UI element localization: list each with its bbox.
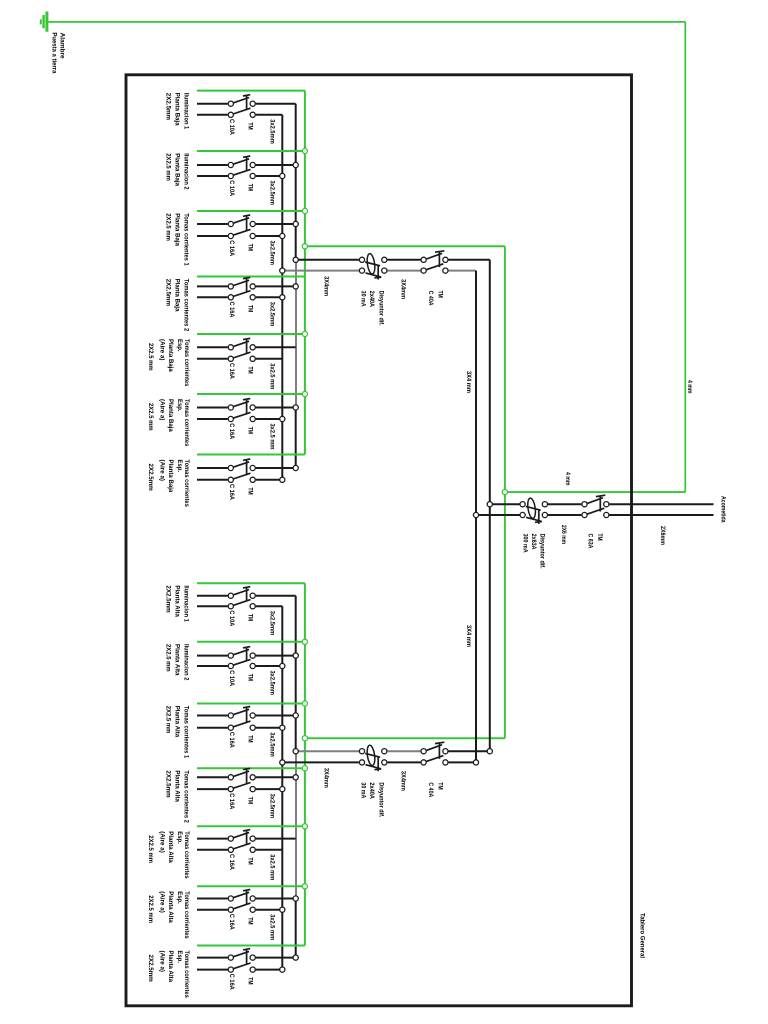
wire dif-TM L bot (387, 750, 420, 752)
junction N bus row4 top (280, 295, 285, 300)
wire TM out N bot (449, 761, 477, 763)
junction L bus row7 bot (293, 955, 298, 960)
green node row2 bot (302, 639, 307, 644)
wire load N PA2 (197, 665, 228, 667)
svg-text:TM: TM (247, 427, 254, 435)
junction N bus row7 bot (280, 967, 285, 972)
wire load N PB3 (197, 235, 228, 237)
differential breaker 2x40A 30mA bot (359, 745, 387, 772)
svg-text:Planta Alta: Planta Alta (174, 770, 181, 802)
wire breaker-to-bus L PA5 (256, 838, 296, 840)
wire TM out N top (449, 270, 477, 272)
wire load L PB3 (197, 223, 228, 225)
breaker TM C 16A PA4 (228, 768, 255, 791)
svg-text:Planta Alta: Planta Alta (174, 706, 181, 738)
wire ground branch PA3 (197, 703, 305, 705)
svg-text:Esp.: Esp. (176, 951, 183, 964)
junction N bus row2 top (280, 173, 285, 178)
svg-text:Tomas corrientes 2: Tomas corrientes 2 (183, 770, 190, 823)
svg-text:Esp.: Esp. (176, 460, 183, 473)
svg-text:Planta Baja: Planta Baja (174, 93, 181, 126)
junction N bus row6 top (280, 416, 285, 421)
label circuit name PB4 (164, 279, 189, 332)
wire breaker-to-bus N PA1 (256, 605, 282, 607)
green ground bus top group (304, 91, 306, 455)
breaker TM C 10A PA2 (228, 647, 255, 669)
wire dif-TM main L (548, 503, 581, 505)
svg-text:(Aire a): (Aire a) (159, 460, 166, 482)
svg-text:3x2.5mm: 3x2.5mm (268, 119, 275, 144)
svg-text:Planta Alta: Planta Alta (167, 891, 174, 923)
green node dif bot (302, 736, 307, 741)
junction N bus row3 bot (280, 725, 285, 730)
service entrance wire L (609, 503, 713, 505)
breaker TM C 40A bot (421, 742, 448, 765)
breaker TM C 16A PA3 (228, 707, 255, 731)
breaker TM C 16A PB4 (228, 277, 255, 300)
svg-text:3X4mm: 3X4mm (399, 771, 406, 791)
svg-text:Puesta a tierra: Puesta a tierra (51, 32, 58, 73)
green wire dif link top (305, 245, 505, 247)
junction L bus row2 top (293, 162, 298, 167)
ground electrode symbol (41, 12, 47, 32)
wire ground branch PB5 (197, 333, 305, 335)
svg-text:Planta Baja: Planta Baja (167, 399, 174, 432)
wire breaker-to-bus L PB6 (256, 407, 296, 409)
svg-text:3x2.5mm: 3x2.5mm (268, 302, 275, 327)
label TM C40A bot (427, 782, 443, 797)
breaker TM C 16A PA7 (228, 949, 255, 973)
svg-text:2x40A: 2x40A (368, 782, 375, 799)
svg-text:2X2.5 mm: 2X2.5 mm (164, 213, 171, 241)
wire load N PB5 (197, 358, 228, 360)
wire load L PB7 (197, 467, 228, 469)
wire load L PA2 (197, 655, 228, 657)
wire breaker-to-bus N PB1 (256, 114, 282, 116)
svg-text:Iluminacion 2: Iluminacion 2 (183, 644, 190, 681)
svg-text:TM: TM (247, 797, 254, 805)
wire load L PB1 (197, 103, 228, 105)
label circuit name PB5 (147, 339, 190, 387)
green node row3 bot (302, 701, 307, 706)
wire breaker-to-bus L PA3 (256, 715, 296, 717)
svg-text:2X2.5 mm: 2X2.5 mm (164, 153, 171, 181)
svg-text:Esp.: Esp. (176, 831, 183, 844)
svg-text:Tomas corrientes: Tomas corrientes (183, 891, 190, 939)
svg-text:Tomas corrientes 2: Tomas corrientes 2 (183, 279, 190, 332)
svg-text:(Aire a): (Aire a) (159, 951, 166, 973)
label TM C40A top (427, 291, 443, 306)
wire load N PB6 (197, 418, 228, 420)
wire breaker-to-bus N PA3 (256, 727, 282, 729)
svg-text:C 16A: C 16A (228, 302, 235, 318)
wire breaker-to-bus L PA7 (256, 957, 296, 959)
junction L bus row3 bot (293, 713, 298, 718)
green node row6 top (302, 391, 307, 396)
enclosure Tablero General box (126, 75, 632, 1006)
wire breaker-to-bus N PB5 (256, 358, 282, 360)
wire dif feed N top (282, 270, 359, 272)
svg-text:(Aire a): (Aire a) (159, 339, 166, 361)
junction corner N bottom group (473, 760, 478, 765)
wire dif-TM N bot (387, 761, 420, 763)
green node row4 bot (302, 766, 307, 771)
main wire N (476, 514, 520, 516)
green node row5 bot (302, 824, 307, 829)
black bus L lower bot group (295, 899, 297, 958)
svg-text:Planta Baja: Planta Baja (174, 213, 181, 246)
junction L bus row4 top (293, 284, 298, 289)
svg-text:2X2.5 mm: 2X2.5 mm (147, 343, 154, 371)
wire breaker-to-bus N PA2 (256, 665, 282, 667)
label circuit name PB7 (147, 460, 190, 508)
wire link L bottom group up (489, 504, 491, 751)
wire breaker-to-bus N PB7 (256, 479, 282, 481)
junction L bus row2 bot (293, 653, 298, 658)
wire breaker-to-bus L PA6 (256, 898, 296, 900)
wire breaker-to-bus N PB6 (256, 418, 282, 420)
wire breaker-to-bus N PB4 (256, 296, 282, 298)
label disyuntor dif bot (360, 782, 385, 817)
wire ground branch PA5 (197, 825, 305, 827)
svg-text:2X2.5 mm: 2X2.5 mm (147, 895, 154, 923)
svg-text:TM: TM (247, 917, 254, 925)
svg-text:2x63A: 2x63A (530, 534, 537, 550)
green node main (502, 490, 507, 495)
green earth wire top (47, 21, 685, 23)
breaker TM C 40A top (421, 251, 448, 273)
wire ground branch PA2 (197, 641, 305, 643)
svg-text:TM: TM (247, 488, 254, 496)
wire breaker-to-bus N PB2 (256, 175, 282, 177)
svg-text:3x2.5 mm: 3x2.5 mm (268, 854, 275, 880)
breaker TM C 16A PB7 (228, 459, 255, 482)
wire load N PB4 (197, 296, 228, 298)
svg-text:C 16A: C 16A (228, 240, 235, 256)
svg-text:Planta Baja: Planta Baja (167, 339, 174, 372)
breaker TM C 16A PA6 (228, 890, 255, 913)
wire link N bottom group up (475, 515, 477, 762)
svg-text:Alambre: Alambre (58, 33, 65, 59)
differential breaker 2x63A 300mA main (520, 498, 548, 524)
svg-text:4 mm: 4 mm (564, 472, 571, 486)
wire link L top group down (489, 260, 491, 504)
svg-text:300 mA: 300 mA (521, 534, 528, 553)
breaker TM C 10A PB1 (228, 95, 255, 118)
wire ground branch PB3 (197, 210, 305, 212)
svg-text:2X2.5 mm: 2X2.5 mm (164, 706, 171, 734)
label circuit name PB2 (164, 153, 189, 190)
svg-text:Iluminacion 1: Iluminacion 1 (183, 585, 190, 622)
wire load L PA7 (197, 957, 228, 959)
svg-text:(Aire a): (Aire a) (159, 891, 166, 913)
svg-text:3x2.5 mm: 3x2.5 mm (268, 424, 275, 450)
wire load N PA1 (197, 605, 228, 607)
label circuit name PA6 (147, 891, 190, 939)
green earth wire right vertical (684, 22, 686, 492)
junction L bus row7 top (293, 465, 298, 470)
wire load N PA4 (197, 788, 228, 790)
svg-text:2X2.5mm: 2X2.5mm (164, 93, 171, 120)
svg-text:C 16A: C 16A (228, 363, 235, 379)
wire breaker-to-bus L PB5 (256, 346, 296, 348)
svg-text:(Aire a): (Aire a) (159, 831, 166, 853)
black bus L lower top group (295, 408, 297, 469)
wire dif feed L bot (296, 750, 359, 752)
svg-text:Esp.: Esp. (176, 891, 183, 904)
svg-text:2X2.5 mm: 2X2.5 mm (147, 403, 154, 431)
junction N bus row6 bot (280, 907, 285, 912)
svg-text:Planta Alta: Planta Alta (174, 585, 181, 617)
svg-text:TM: TM (247, 858, 254, 866)
svg-text:4 mm: 4 mm (686, 380, 693, 394)
wire load N PA7 (197, 969, 228, 971)
svg-text:3x2.5mm: 3x2.5mm (268, 181, 275, 206)
junction dif N top (280, 268, 285, 273)
wire breaker-to-bus L PA2 (256, 655, 296, 657)
svg-text:Tomas corrientes 1: Tomas corrientes 1 (183, 213, 190, 266)
svg-text:TM: TM (247, 367, 254, 375)
wire ground branch PA4 (197, 767, 305, 769)
label circuit name PA1 (164, 585, 189, 622)
breaker TM C 16A PB6 (228, 399, 255, 422)
wire dif-TM L top (387, 259, 420, 261)
main wire L (490, 503, 520, 505)
junction N bus row7 top (280, 477, 285, 482)
svg-text:Planta Alta: Planta Alta (174, 644, 181, 676)
svg-text:2X6mm: 2X6mm (659, 526, 666, 545)
label circuit name PA7 (147, 951, 190, 999)
wire load L PB2 (197, 164, 228, 166)
breaker TM C 10A PA1 (228, 587, 255, 609)
breaker TM C 63A main (582, 495, 609, 517)
grey bus segment top group (295, 260, 297, 408)
junction N bus row4 bot (280, 787, 285, 792)
svg-text:C 63A: C 63A (587, 534, 594, 549)
wire ground branch PB2 (197, 150, 305, 152)
svg-text:Esp.: Esp. (176, 399, 183, 412)
wire breaker-to-bus L PA4 (256, 776, 296, 778)
wire breaker-to-bus N PA5 (256, 849, 282, 851)
wire ground branch PA7 (197, 945, 305, 947)
svg-text:C 40A: C 40A (427, 782, 434, 797)
svg-text:TM: TM (436, 782, 443, 790)
svg-text:Tomas corrientes: Tomas corrientes (183, 399, 190, 447)
svg-text:C 10A: C 10A (228, 610, 235, 626)
junction main L (487, 502, 492, 507)
svg-text:2X2.5mm: 2X2.5mm (164, 585, 171, 612)
junction corner L bottom group (487, 749, 492, 754)
junction main N (473, 512, 478, 517)
svg-text:Planta Alta: Planta Alta (167, 951, 174, 983)
svg-text:Planta Baja: Planta Baja (174, 279, 181, 312)
wire load L PB5 (197, 346, 228, 348)
label circuit name PB1 (164, 93, 189, 130)
svg-text:Esp.: Esp. (176, 339, 183, 352)
wire load N PA3 (197, 727, 228, 729)
wire load L PA6 (197, 898, 228, 900)
junction dif N bot (280, 760, 285, 765)
svg-text:C 10A: C 10A (228, 119, 235, 135)
wire load N PA5 (197, 849, 228, 851)
svg-text:Acometida: Acometida (719, 496, 726, 523)
wire dif-TM main N (548, 514, 581, 516)
svg-text:3x2.5 mm: 3x2.5 mm (268, 363, 275, 389)
svg-text:30 mA: 30 mA (360, 291, 367, 307)
svg-text:C 16A: C 16A (228, 732, 235, 748)
wire ground branch PB1 (197, 90, 305, 92)
label circuit name PA5 (147, 831, 190, 879)
black bus L bot group (295, 596, 297, 752)
svg-text:Iluminacion 2: Iluminacion 2 (183, 153, 190, 190)
svg-text:TM: TM (247, 123, 254, 131)
svg-text:3x2.5mm: 3x2.5mm (268, 241, 275, 266)
breaker TM C 16A PB5 (228, 338, 255, 361)
svg-text:3x2.5mm: 3x2.5mm (268, 611, 275, 636)
wire breaker-to-bus N PA4 (256, 788, 282, 790)
service entrance wire N (609, 514, 713, 516)
junction dif L top (293, 257, 298, 262)
svg-text:Tomas corrientes: Tomas corrientes (183, 339, 190, 387)
wire load N PB1 (197, 114, 228, 116)
junction L bus row3 top (293, 221, 298, 226)
svg-text:2X2.5mm: 2X2.5mm (164, 279, 171, 306)
wire breaker-to-bus N PA7 (256, 969, 282, 971)
wire dif feed N bot (282, 761, 359, 763)
wire load L PA3 (197, 715, 228, 717)
wire ground branch PA1 (197, 582, 305, 584)
svg-text:C 16A: C 16A (228, 484, 235, 500)
junction L bus row6 top (293, 405, 298, 410)
wire breaker-to-bus N PA6 (256, 909, 282, 911)
label circuit name PA4 (164, 770, 189, 823)
green node dif top (302, 244, 307, 249)
svg-text:2X6 mm: 2X6 mm (560, 525, 567, 544)
wire load L PB4 (197, 285, 228, 287)
svg-text:TM: TM (596, 534, 603, 542)
svg-text:Disyuntor dif.: Disyuntor dif. (538, 534, 545, 569)
svg-text:30 mA: 30 mA (360, 782, 367, 798)
label disyuntor dif top (360, 291, 385, 326)
svg-text:TM: TM (247, 184, 254, 192)
svg-text:Planta Alta: Planta Alta (167, 831, 174, 863)
wire breaker-to-bus L PB7 (256, 467, 296, 469)
wire breaker-to-bus L PA1 (256, 595, 296, 597)
wire dif feed L top (296, 259, 359, 261)
svg-text:C 16A: C 16A (228, 914, 235, 930)
svg-text:TM: TM (247, 614, 254, 622)
wire breaker-to-bus L PB4 (256, 285, 296, 287)
svg-text:(Aire a): (Aire a) (159, 399, 166, 421)
svg-text:Tomas corrientes: Tomas corrientes (183, 460, 190, 508)
green earth vertical center (504, 246, 506, 738)
wire load L PA1 (197, 595, 228, 597)
wire load L PA5 (197, 838, 228, 840)
black bus L top group (295, 104, 297, 260)
svg-text:TM: TM (247, 977, 254, 985)
breaker TM C 16A PB3 (228, 215, 255, 239)
breaker TM C 16A PA5 (228, 830, 255, 853)
junction N bus row2 bot (280, 663, 285, 668)
wire TM out L top (449, 259, 490, 261)
svg-text:2X2.5 mm: 2X2.5 mm (164, 644, 171, 672)
junction dif L bot (293, 749, 298, 754)
svg-text:3X4mm: 3X4mm (322, 768, 329, 788)
black bus N bot group (281, 606, 283, 969)
svg-text:C 10A: C 10A (228, 180, 235, 196)
breaker TM C 10A PB2 (228, 156, 255, 179)
svg-text:3X4mm: 3X4mm (399, 279, 406, 299)
svg-text:TM: TM (247, 674, 254, 682)
wire breaker-to-bus L PB1 (256, 103, 296, 105)
svg-text:Iluminacion 1: Iluminacion 1 (183, 93, 190, 130)
svg-text:2X2.5mm: 2X2.5mm (164, 770, 171, 797)
label circuit name PB6 (147, 399, 190, 447)
grey bus segment bot group (295, 751, 297, 898)
svg-text:Disyuntor dif.: Disyuntor dif. (377, 291, 384, 326)
svg-text:Tomas corrientes 1: Tomas corrientes 1 (183, 706, 190, 759)
wire load L PB6 (197, 407, 228, 409)
svg-text:3X4 mm: 3X4 mm (465, 625, 472, 647)
svg-text:3x2.5mm: 3x2.5mm (268, 794, 275, 819)
wire load N PB7 (197, 479, 228, 481)
green node row5 top (302, 331, 307, 336)
svg-text:TM: TM (247, 305, 254, 313)
svg-text:3X4 mm: 3X4 mm (465, 371, 472, 393)
label TM C63A main (587, 534, 603, 549)
wire breaker-to-bus L PB2 (256, 164, 296, 166)
wire load N PB2 (197, 175, 228, 177)
green wire dif link bot (305, 737, 505, 739)
junction N bus row3 top (280, 233, 285, 238)
wire ground branch PB7 (197, 454, 305, 456)
svg-text:C 40A: C 40A (427, 291, 434, 306)
svg-text:TM: TM (436, 291, 443, 299)
label disyuntor dif main (521, 534, 545, 569)
svg-text:2X2.5mm: 2X2.5mm (147, 464, 154, 491)
green node row6 bot (302, 884, 307, 889)
wire breaker-to-bus N PB3 (256, 235, 282, 237)
wire breaker-to-bus L PB3 (256, 223, 296, 225)
green earth wire jog (505, 491, 685, 493)
black bus N top group (281, 115, 283, 480)
svg-text:C 10A: C 10A (228, 670, 235, 686)
svg-text:C 16A: C 16A (228, 854, 235, 870)
wire link N top group down (475, 271, 477, 515)
label Alambre Puesta a tierra (51, 32, 66, 73)
wire ground branch PB6 (197, 393, 305, 395)
differential breaker 2x40A 30mA top (359, 253, 387, 279)
wire load L PA4 (197, 776, 228, 778)
label circuit name PA3 (164, 706, 189, 759)
wire load N PA6 (197, 909, 228, 911)
label circuit name PB3 (164, 213, 189, 266)
svg-text:Tablero General: Tablero General (638, 913, 645, 958)
green node row2 top (302, 148, 307, 153)
wire dif-TM N top (387, 270, 420, 272)
wire ground branch PB4 (197, 276, 305, 278)
svg-text:2X2.5mm: 2X2.5mm (147, 955, 154, 982)
svg-text:Tomas corrientes: Tomas corrientes (183, 951, 190, 999)
svg-text:Tomas corrientes: Tomas corrientes (183, 831, 190, 879)
svg-text:Planta Baja: Planta Baja (167, 460, 174, 493)
svg-text:3X4mm: 3X4mm (322, 276, 329, 296)
svg-text:C 16A: C 16A (228, 423, 235, 439)
junction L bus row6 bot (293, 896, 298, 901)
junction L bus row4 bot (293, 775, 298, 780)
svg-text:Planta Baja: Planta Baja (174, 153, 181, 186)
svg-text:2x40A: 2x40A (368, 291, 375, 308)
